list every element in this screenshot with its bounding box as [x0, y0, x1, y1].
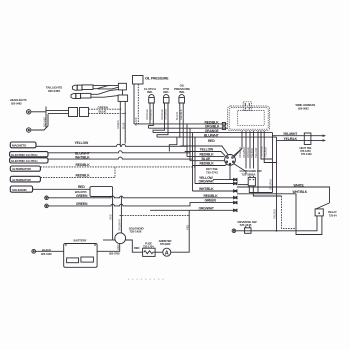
- ammeter M1: [163, 248, 171, 256]
- svg-text:GREEN: GREEN: [116, 120, 120, 129]
- svg-text:ORG/WHT: ORG/WHT: [199, 207, 215, 211]
- wire dashed return: [282, 196, 297, 228]
- reverse switch box: [245, 226, 252, 233]
- wire clutch sw pin1 down: [249, 186, 272, 193]
- wire fuse-ammeter: [155, 251, 163, 253]
- svg-text:GREEN: GREEN: [76, 194, 88, 198]
- svg-text:ORANGE: ORANGE: [145, 109, 149, 120]
- svg-text:BLACK: BLACK: [175, 112, 179, 120]
- battery B1: [64, 244, 97, 268]
- svg-text:725-1704: 725-1704: [143, 244, 154, 248]
- wire pair to connector boxes: [46, 111, 69, 114]
- taillights label: [46, 86, 63, 94]
- svg-text:ORG/BLK: ORG/BLK: [149, 109, 153, 120]
- wire module right vertical 2: [276, 137, 278, 231]
- svg-text:ELECTRIC CLUTCH: ELECTRIC CLUTCH: [11, 159, 37, 163]
- wire solenoid left: [103, 239, 115, 241]
- wire bus2 ORG/BLK: [149, 127, 228, 129]
- clutch brake switch label: [240, 169, 262, 177]
- svg-text:RED/BLK: RED/BLK: [76, 163, 91, 167]
- wire black 2 from oil switch: [137, 84, 139, 124]
- svg-text:RED/BLK: RED/BLK: [76, 174, 91, 178]
- svg-text:YELLOW: YELLOW: [200, 148, 215, 152]
- wire org/wht bottom: [150, 209, 234, 211]
- wire lamp2 right lead: [157, 103, 168, 137]
- svg-text:RED: RED: [185, 225, 189, 230]
- svg-text:ORG/BLK: ORG/BLK: [238, 147, 242, 158]
- wire module right vertical 1: [272, 133, 274, 193]
- wire RED to key: [180, 146, 228, 155]
- wire yel/wht to heat sw: [273, 135, 326, 137]
- wire into clutch sw: [238, 184, 248, 186]
- node blue junction: [124, 113, 126, 115]
- svg-text:IND.: IND.: [179, 90, 185, 94]
- svg-text:925-0465: 925-0465: [48, 89, 60, 93]
- wire white: [237, 187, 330, 203]
- wire blue vertical from B2: [124, 102, 126, 144]
- wire yellow lower: [213, 179, 234, 181]
- wire solenoid right to fuse: [126, 240, 143, 252]
- svg-text:BATTERY: BATTERY: [74, 239, 87, 243]
- wire bus4 BLU/WHT: [157, 136, 277, 138]
- label wire harness: [296, 103, 316, 111]
- svg-text:ORANGE: ORANGE: [160, 109, 164, 120]
- solenoid S1: [115, 233, 126, 244]
- wire taillight1 leads: [93, 85, 118, 89]
- svg-text:RED: RED: [78, 185, 85, 189]
- terminal T2: [27, 128, 31, 132]
- svg-text:RED/BLK: RED/BLK: [204, 194, 219, 198]
- svg-text:YEL/BLK: YEL/BLK: [284, 137, 298, 141]
- taillight bulb 1: [72, 85, 93, 90]
- module wire-entry bumps: [222, 123, 225, 126]
- wire alternator1 red/blk dashed: [40, 166, 195, 168]
- svg-text:A: A: [165, 250, 169, 256]
- wire bundle vertical a: [186, 124, 188, 157]
- wire green vertical from B2: [119, 102, 121, 147]
- svg-text:ORANGE: ORANGE: [205, 129, 220, 133]
- svg-text:YEL/BLK: YEL/BLK: [263, 147, 267, 157]
- wire lamp3 right lead: [183, 103, 187, 146]
- wire bundle vertical b: [189, 128, 191, 161]
- wire wht/blk lower: [193, 190, 234, 192]
- wire lamp1 right lead: [149, 103, 154, 128]
- svg-text:RED: RED: [109, 214, 113, 219]
- svg-text:725-1662A: 725-1662A: [242, 172, 257, 176]
- svg-text:WHT/BLK: WHT/BLK: [293, 190, 308, 194]
- left device label ALTERNATOR 1: [10, 166, 40, 171]
- lamp clutch ind symbol: [149, 95, 155, 103]
- left device label MAGNETO: [10, 142, 36, 148]
- wire battery negative: [36, 250, 64, 252]
- module top connector: [243, 102, 251, 111]
- inline connector vertical: [45, 107, 47, 129]
- connector block on red wire: [90, 187, 113, 197]
- label relay: [328, 210, 337, 217]
- lamp base ticks: [149, 96, 185, 98]
- svg-text:YELLOW: YELLOW: [254, 147, 258, 158]
- wire YELLOW to key: [185, 152, 226, 156]
- svg-text:ORG/WHT: ORG/WHT: [117, 219, 121, 231]
- connector marks column: [234, 178, 238, 211]
- connector box B2: [118, 95, 128, 101]
- wire clutch sw pin2 down: [253, 186, 281, 196]
- wire key diag to clutch sw: [234, 164, 246, 174]
- svg-text:WHT/BLK: WHT/BLK: [75, 156, 90, 160]
- terminal battery negative: [32, 249, 36, 253]
- svg-text:GREEN: GREEN: [76, 202, 88, 206]
- lamp clutch ind label: [144, 87, 156, 94]
- node bundle dots: [186, 145, 188, 147]
- wire battery positive: [97, 244, 120, 252]
- node reverse junction: [276, 230, 278, 232]
- svg-text:YEL/BLK: YEL/BLK: [250, 148, 254, 158]
- wire lamp3 left lead: [179, 103, 181, 137]
- svg-text:ORG/BLK: ORG/BLK: [205, 125, 220, 129]
- svg-text:BLU/WHT: BLU/WHT: [75, 151, 91, 155]
- module second outline: [229, 108, 268, 130]
- connector box C2: [80, 108, 89, 117]
- wire BLUE to key: [190, 160, 224, 162]
- module bottom pins: [235, 131, 243, 157]
- left device label SOLENOID: [10, 186, 32, 192]
- svg-text:BLUE: BLUE: [121, 122, 125, 129]
- svg-text:925-0705: 925-0705: [109, 252, 120, 256]
- svg-text:GREEN: GREEN: [98, 105, 108, 109]
- wire key diag to module pin: [234, 149, 242, 156]
- svg-text:ALTERNATOR: ALTERNATOR: [12, 178, 32, 182]
- wire red 925-0705: [33, 188, 90, 190]
- wire wht/blk right: [237, 194, 322, 235]
- wire org/wht lower: [195, 183, 234, 185]
- taillight bulb 2: [71, 93, 91, 98]
- svg-text:BLU/WHT: BLU/WHT: [204, 134, 220, 138]
- svg-text:RED/BLK: RED/BLK: [200, 162, 215, 166]
- label ammeter: [159, 239, 172, 246]
- wire green 1: [48, 196, 233, 198]
- clutch brake switch box: [248, 177, 255, 185]
- wire bundle vertical d: [194, 137, 196, 183]
- wire jog blu/wht: [169, 137, 177, 151]
- svg-text:ORG/WHT: ORG/WHT: [199, 180, 215, 184]
- module inner box: [238, 111, 265, 126]
- svg-text:ALTERNATOR: ALTERNATOR: [12, 167, 32, 171]
- connector box B1: [118, 83, 126, 90]
- svg-text:629-0063: 629-0063: [298, 107, 309, 111]
- wire bus3 ORANGE: [153, 132, 273, 134]
- wire RED/BLK to key: [187, 156, 224, 158]
- lamp oil ind label: [174, 84, 190, 95]
- relay switch box: [315, 209, 323, 216]
- svg-text:ELECTRIC CLUTCH: ELECTRIC CLUTCH: [11, 153, 37, 157]
- svg-text:RED/BLK: RED/BLK: [179, 109, 183, 120]
- wire module pin 6: [261, 131, 273, 159]
- label fuse: [143, 241, 154, 248]
- svg-text:ORG/BLK: ORG/BLK: [269, 179, 273, 190]
- wire blue to junction: [89, 112, 126, 114]
- label heat switch: [300, 146, 312, 156]
- arrow yel/wht: [323, 134, 327, 137]
- wire red vertical to solenoid: [112, 197, 114, 241]
- left device label ELECTRIC CLUTCH 1: [10, 152, 48, 157]
- key switch U1: [225, 155, 236, 166]
- wire B1-B2: [122, 90, 124, 95]
- svg-text:BLUE: BLUE: [202, 157, 212, 161]
- wire bus1 RED/BLK: [134, 123, 228, 125]
- svg-text:725-04: 725-04: [329, 213, 337, 217]
- label key switch: [206, 167, 218, 175]
- node lamp junctions: [149, 123, 151, 125]
- wire lamp1 left lead: [149, 103, 151, 124]
- connector box C1: [69, 108, 78, 117]
- label solenoid: [129, 226, 145, 233]
- left device label ELECTRIC CLUTCH 2: [10, 158, 48, 163]
- lamp oil ind symbol: [179, 95, 185, 103]
- svg-text:HEADLIGHTS: HEADLIGHTS: [10, 98, 27, 102]
- svg-text:BLACK: BLACK: [42, 248, 51, 252]
- svg-text:ORANGE: ORANGE: [246, 147, 250, 158]
- svg-text:IND.: IND.: [163, 90, 169, 94]
- terminal green 2: [45, 204, 49, 208]
- svg-text:725-1741: 725-1741: [206, 170, 218, 174]
- left device label ALTERNATOR 2: [10, 176, 40, 182]
- svg-text:ORG/BLK: ORG/BLK: [242, 147, 246, 158]
- module outer box: [228, 106, 270, 131]
- terminal green 1: [45, 196, 49, 200]
- heat switch: [304, 133, 311, 145]
- terminal T1: [27, 110, 31, 114]
- wire elec clutch blu/wht: [48, 151, 190, 153]
- svg-text:WHITE: WHITE: [294, 183, 305, 187]
- wire black from oil switch: [133, 84, 135, 124]
- svg-text:GREEN: GREEN: [205, 199, 217, 203]
- wire elec clutch wht/blk: [48, 157, 193, 159]
- wire org/wht vertical to solenoid top: [120, 197, 122, 233]
- svg-text:OIL PRESSURE: OIL PRESSURE: [145, 77, 169, 81]
- svg-text:725-1426: 725-1426: [129, 229, 141, 233]
- svg-text:RED: RED: [208, 139, 215, 143]
- terminal reverse: [232, 229, 236, 233]
- svg-text:RED: RED: [116, 244, 120, 249]
- wire equipment dashed: [120, 214, 190, 216]
- scan noise dots: [128, 279, 164, 280]
- wire green to junction: [89, 108, 121, 110]
- svg-text:925-0457: 925-0457: [42, 116, 46, 127]
- svg-text:YEL/WHT: YEL/WHT: [283, 132, 298, 136]
- wire magneto yellow: [36, 144, 187, 146]
- arrow yel/blk: [323, 139, 327, 142]
- svg-text:MAGNETO: MAGNETO: [12, 144, 27, 148]
- svg-text:725-1439: 725-1439: [301, 152, 312, 156]
- wire yel/blk to heat sw: [277, 139, 326, 141]
- headlight connector label: [10, 98, 27, 106]
- wire reverse switch: [236, 216, 317, 231]
- wire green 2: [48, 203, 233, 206]
- wire T1 to inline connector: [31, 111, 46, 113]
- wire alternator2 red/blk dashed: [40, 167, 115, 178]
- svg-text:925-0136: 925-0136: [41, 252, 52, 256]
- wire ammeter right and up: [171, 210, 189, 252]
- svg-text:RED/BLK: RED/BLK: [205, 120, 220, 124]
- svg-text:SOLENOID: SOLENOID: [12, 188, 27, 192]
- svg-text:ORG/BLK: ORG/BLK: [164, 109, 168, 120]
- relay switch lever: [316, 203, 330, 209]
- lamp pto ind symbol: [163, 95, 169, 103]
- svg-text:WIRE HARNESS: WIRE HARNESS: [296, 103, 316, 107]
- node green junction: [119, 108, 121, 110]
- svg-text:925-0462: 925-0462: [11, 102, 22, 106]
- svg-text:BLUE: BLUE: [99, 110, 107, 114]
- wire bundle vertical c: [192, 133, 194, 191]
- lamp pto ind label: [163, 87, 170, 94]
- wire key bottom vertical: [229, 165, 231, 179]
- fuse F1: [143, 248, 156, 256]
- svg-text:ORANGE: ORANGE: [259, 146, 263, 157]
- svg-text:RED: RED: [134, 246, 140, 250]
- svg-text:IND.: IND.: [147, 90, 153, 94]
- wire RED/BLK2 to key: [193, 164, 228, 166]
- reverse switch label: [238, 220, 257, 227]
- wire module pin 7: [264, 131, 276, 163]
- svg-text:YEL/BLK: YEL/BLK: [273, 209, 277, 219]
- wire lamp2 left lead: [153, 103, 165, 133]
- wire T2 up to pair: [31, 114, 48, 130]
- oil pressure switch: [133, 76, 144, 85]
- svg-text:YELLOW: YELLOW: [75, 141, 90, 145]
- svg-text:WHT/BLK: WHT/BLK: [199, 187, 214, 191]
- wire taillight2 leads: [91, 90, 119, 98]
- svg-text:725-0960: 725-0960: [160, 242, 171, 246]
